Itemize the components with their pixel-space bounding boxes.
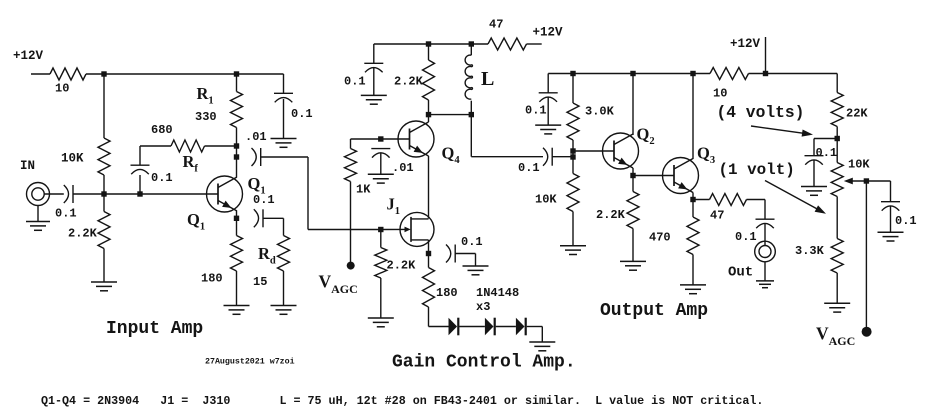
svg-text:0.1: 0.1: [461, 235, 483, 249]
resistor Rf 680: [171, 140, 205, 152]
wire wiper cap to ground: [890, 206, 892, 232]
label Q1 designator (upper): [248, 174, 266, 196]
wire R1 bottom to collector: [236, 128, 238, 178]
ground (470): [680, 285, 706, 294]
wire rail corner to 22K: [836, 74, 838, 93]
svg-text:0.1: 0.1: [525, 104, 547, 118]
ground (pot 0.1): [801, 187, 827, 196]
label 47 (output): [710, 209, 724, 223]
wire 2.2K to ground (Q2): [632, 229, 634, 262]
label 0.1 (pot top): [816, 146, 838, 160]
svg-text:2.2K: 2.2K: [596, 208, 626, 222]
svg-text:180: 180: [201, 272, 223, 286]
node +12V junction (output): [763, 71, 768, 76]
annotation (4 volts): [717, 103, 805, 122]
label Q4 designator: [442, 144, 461, 166]
svg-text:J1: J1: [387, 195, 401, 217]
svg-text:10K: 10K: [848, 158, 870, 172]
svg-text:Rf: Rf: [183, 152, 199, 174]
label 3.3K: [795, 244, 825, 258]
svg-text:2.2K: 2.2K: [68, 227, 98, 241]
svg-text:47: 47: [710, 209, 724, 223]
node rail-R1 junction: [234, 71, 239, 76]
wire 3.0K to base node: [572, 140, 574, 174]
resistor 180 (Q1 emitter): [231, 236, 243, 272]
ground (IN jack): [26, 222, 50, 231]
svg-text:3.0K: 3.0K: [585, 105, 615, 119]
power +12V label (input amp): [13, 49, 44, 63]
wire input node to 2.2K: [103, 194, 105, 212]
power +12V label (output): [730, 37, 761, 51]
capacitor 0.1 (output coupling): [756, 219, 775, 228]
ground (Out jack): [756, 281, 774, 288]
wire +12V drop (output): [765, 37, 767, 74]
label 2.2K (output): [596, 208, 626, 222]
wire Rd to ground: [283, 271, 285, 306]
svg-text:Q2: Q2: [637, 125, 655, 147]
transistor Q2: [603, 133, 639, 169]
label 3.0K: [585, 105, 615, 119]
label Rd designator: [258, 244, 276, 266]
svg-text:0.1: 0.1: [518, 161, 540, 175]
node rail Q2 junction: [630, 71, 635, 76]
svg-text:Q4: Q4: [442, 144, 461, 166]
resistor 1K: [345, 149, 357, 182]
transistor Q1: [207, 176, 243, 212]
title Gain Control Amp.: [392, 353, 576, 373]
svg-text:0.1: 0.1: [291, 107, 313, 121]
ground (output bypass): [535, 125, 561, 134]
node rail Q3 junction: [690, 71, 695, 76]
node coupling cap junction: [570, 154, 575, 159]
svg-text:L: L: [481, 68, 494, 90]
label 2.2K (input): [68, 227, 98, 241]
svg-text:Rd: Rd: [258, 244, 276, 266]
ground (input rail bypass): [271, 139, 297, 148]
wire collector node to L node: [429, 114, 472, 116]
resistor 2.2K (Q2 emitter): [627, 192, 639, 229]
wire Q1 emitter down: [236, 211, 238, 236]
capacitor 0.1 bypass (gain): [364, 63, 383, 72]
wire rail down to 0.1 bypass: [283, 74, 285, 93]
note bottom parts list: [41, 394, 763, 408]
label IN: [20, 159, 35, 173]
node J1 source junction: [426, 251, 431, 256]
svg-text:+12V: +12V: [13, 49, 44, 63]
ground (3.3K): [824, 303, 850, 312]
svg-text:R1: R1: [197, 84, 214, 106]
wire emitter cap to Rd: [263, 218, 284, 235]
diode D2 1N4148: [485, 318, 495, 336]
wire gate 2.2K to ground: [380, 278, 382, 318]
resistor 180 (J1 source): [423, 268, 435, 308]
wire 3.0K top: [572, 74, 574, 104]
node input-10K junction: [101, 191, 106, 196]
svg-text:10: 10: [713, 87, 727, 101]
annotation (1 volt): [719, 161, 795, 179]
ground (diodes): [529, 342, 555, 351]
ground (J1 gate 2.2K): [368, 318, 394, 327]
svg-text:0.1: 0.1: [895, 214, 917, 228]
wire Q2 emitter: [632, 168, 634, 192]
wire 2.2K to Q4 collector node: [428, 100, 430, 122]
label Out: [728, 265, 753, 281]
label Q3 designator: [697, 144, 715, 166]
node emitter junction Q1: [234, 216, 239, 221]
svg-text:47: 47: [489, 18, 503, 32]
svg-text:.01: .01: [392, 161, 414, 175]
annotation arrow (4 volts): [751, 126, 813, 137]
label 10K (input): [61, 152, 84, 166]
label 0.1 (feedback): [151, 171, 173, 185]
wire 2.2K to ground: [103, 249, 105, 283]
ground (input 2.2K): [91, 282, 117, 291]
wire .01 to ground (Q4): [380, 153, 382, 174]
wire IN jack to ground: [37, 206, 39, 222]
svg-text:Q1-Q4 = 2N3904 J1 = J310: Q1-Q4 = 2N3904 J1 = J310 L = 75 uH, 12t …: [41, 394, 763, 408]
label 10 (input amp): [55, 82, 69, 96]
wire wiper to Vagc: [865, 181, 867, 332]
wire 0.1 bypass to ground: [283, 99, 285, 139]
capacitor 0.1 (wiper bypass): [881, 202, 900, 211]
label J1 designator: [387, 195, 401, 217]
label Q1 designator (lower): [187, 210, 205, 232]
wire .01 cap to gain amp: [261, 157, 381, 230]
svg-text:Input Amp: Input Amp: [106, 319, 203, 339]
wire gate 2.2K down: [380, 230, 382, 248]
svg-text:.01: .01: [245, 130, 267, 144]
wire D1-D2: [459, 326, 485, 328]
label 1K: [356, 183, 371, 197]
wire 10K top: [103, 74, 105, 138]
label 0.1 (mid coupling): [518, 161, 540, 175]
label Vagc (output): [816, 324, 855, 349]
svg-text:VAGC: VAGC: [319, 272, 358, 297]
label 330: [195, 110, 217, 124]
svg-text:330: 330: [195, 110, 217, 124]
svg-text:0.1: 0.1: [344, 75, 366, 89]
wire 3.3K to ground: [836, 273, 838, 303]
label R1 designator: [197, 84, 214, 106]
label 0.1 (J1 source): [461, 235, 483, 249]
svg-text:22K: 22K: [846, 107, 868, 121]
svg-text:2.2K: 2.2K: [394, 75, 424, 89]
wire L top: [470, 44, 472, 55]
svg-text:(4 volts): (4 volts): [717, 103, 805, 122]
wire J1 source down: [428, 240, 430, 268]
ground (Rd): [271, 306, 297, 315]
wire wiper to right cap: [866, 181, 890, 202]
node Q3 emitter junction: [690, 197, 695, 202]
label 47 (gain rail): [489, 18, 503, 32]
wire 180 to ground: [236, 271, 238, 306]
label 0.1 (gain bypass): [344, 75, 366, 89]
label 680: [151, 123, 173, 137]
node rail 3.0K junction: [570, 71, 575, 76]
transistor J1 JFET: [400, 212, 434, 246]
wire source cap to ground: [455, 254, 475, 267]
node J1 gate junction: [378, 227, 383, 232]
resistor 10K (input bias upper): [98, 138, 110, 175]
ground (.01 Q4): [368, 174, 394, 183]
label 2.2K (Q4): [394, 75, 424, 89]
wire +12V rail input amp: [31, 73, 284, 75]
resistor Rd 15: [278, 236, 290, 272]
power +12V label (gain amp): [533, 26, 564, 40]
capacitor 0.1 (pot top bypass): [805, 156, 824, 165]
label 2.2K (J1 gate): [387, 259, 417, 273]
label 180 (gain amp): [436, 286, 458, 300]
wire L bottom: [470, 101, 472, 115]
ground (J1 source cap): [463, 266, 489, 275]
svg-text:Q1: Q1: [187, 210, 205, 232]
node Q4 base junction: [378, 136, 383, 141]
wire 47 to out cap: [747, 200, 766, 220]
svg-text:2.2K: 2.2K: [387, 259, 417, 273]
node rail-10K junction: [101, 71, 106, 76]
label L designator: [481, 68, 494, 90]
capacitor 0.1 bypass (input amp rail): [274, 93, 293, 102]
diode D1 1N4148: [449, 318, 459, 336]
ground (Q2 2.2K): [620, 261, 646, 270]
svg-text:0.1: 0.1: [253, 193, 275, 207]
wire Q3 emitter: [692, 193, 694, 218]
node wiper junction: [864, 178, 869, 183]
wire output rail: [548, 73, 710, 75]
svg-text:Out: Out: [728, 265, 753, 281]
capacitor 0.1 (J1 source bypass): [446, 245, 455, 263]
wire IN jack to cap: [44, 193, 64, 195]
wire input node: [73, 193, 218, 195]
label 10 (output): [713, 87, 727, 101]
wire D3 to ground: [527, 327, 543, 343]
svg-text:+12V: +12V: [533, 26, 564, 40]
label 0.1 (output bypass): [525, 104, 547, 118]
label 0.1 (wiper): [895, 214, 917, 228]
annotation arrow (1 volt): [765, 181, 826, 214]
label 1N4148: [476, 286, 519, 300]
label x3: [476, 300, 490, 314]
wire R1 top: [236, 74, 238, 92]
resistor R1 330: [231, 92, 243, 128]
node 22K-pot junction: [835, 136, 840, 141]
svg-text:IN: IN: [20, 159, 35, 173]
wire pot node to 0.1: [814, 139, 837, 156]
resistor 2.2K (Q4 collector): [423, 60, 435, 100]
wire 1K top corner: [350, 139, 352, 149]
svg-text:680: 680: [151, 123, 173, 137]
svg-text:Q3: Q3: [697, 144, 715, 166]
wire pot 0.1 to ground: [813, 160, 815, 186]
svg-text:1N4148: 1N4148: [476, 286, 519, 300]
resistor 10 (output rail): [710, 68, 749, 80]
wire Q3 emitter to 47: [693, 199, 710, 201]
wire 2.2K top (gain): [428, 44, 430, 60]
wire feedback cap up: [139, 175, 141, 194]
svg-text:10K: 10K: [61, 152, 84, 166]
svg-text:470: 470: [649, 231, 671, 245]
svg-text:3.3K: 3.3K: [795, 244, 825, 258]
capacitor .01 (Q4 base bypass): [371, 149, 390, 158]
resistor 47 (gain rail): [488, 38, 527, 50]
wire Out jack to ground: [764, 262, 766, 281]
pot wiper arrow: [844, 178, 867, 185]
resistor R 10 (input amp): [50, 68, 86, 80]
svg-text:10K: 10K: [535, 193, 557, 207]
resistor 2.2K (J1 gate): [375, 248, 387, 279]
wire out cap to jack: [764, 224, 766, 246]
resistor 3.0K: [567, 103, 579, 140]
resistor 2.2K (input emitter-ish bias): [98, 212, 110, 249]
resistor 470 (Q3 emitter): [687, 217, 699, 255]
wire Q2 emitter to Q3 base: [633, 175, 674, 177]
wire 1K to Vagc terminal: [350, 182, 352, 266]
node collector-Rf junction: [234, 143, 239, 148]
label 0.1 (Q1 emitter): [253, 193, 275, 207]
node Q4 collector junction: [426, 112, 431, 117]
node L bottom junction: [469, 112, 474, 117]
resistor 47 (output): [710, 194, 747, 206]
svg-text:0.1: 0.1: [735, 230, 757, 244]
wire L node to coupling cap: [471, 115, 543, 157]
label 180 (input amp): [201, 272, 223, 286]
transistor Q4: [398, 121, 434, 157]
wire 22K to pot node: [836, 127, 838, 163]
svg-text:10: 10: [55, 82, 69, 96]
wire cap to bias node: [552, 156, 573, 158]
wire Q4 base: [351, 138, 410, 140]
wire Q3 collector: [692, 74, 694, 160]
wire 47 to +12V end: [527, 43, 542, 45]
wire Q2 collector: [632, 74, 634, 136]
title Output Amp: [600, 301, 708, 321]
node gain rail 2.2K junction: [426, 41, 431, 46]
svg-text:VAGC: VAGC: [816, 324, 855, 349]
wire gain 0.1 to ground: [373, 68, 375, 95]
wire gain rail: [374, 43, 488, 45]
capacitor 0.1 coupling (to output amp): [543, 148, 552, 166]
ground (180 input): [224, 306, 250, 315]
svg-text:x3: x3: [476, 300, 490, 314]
wire rail to 0.1 (left output): [547, 74, 549, 93]
svg-text:27August2021 w7zoi: 27August2021 w7zoi: [205, 357, 295, 367]
capacitor .01 output coupling (input amp): [252, 148, 261, 166]
credit 27August2021 w7zoi: [205, 357, 295, 367]
wire 470 to ground: [692, 255, 694, 285]
title Input Amp: [106, 319, 203, 339]
svg-text:1K: 1K: [356, 183, 371, 197]
node collector-cap junction: [234, 154, 239, 159]
label 10K (pot): [848, 158, 870, 172]
wire Q4 emitter to J1 drain: [428, 156, 430, 219]
label 0.1 (input rail bypass): [291, 107, 313, 121]
transistor Q3: [663, 158, 699, 194]
label Q2 designator: [637, 125, 655, 147]
wire J1 gate: [381, 228, 406, 230]
svg-text:0.1: 0.1: [816, 146, 838, 160]
svg-text:180: 180: [436, 286, 458, 300]
label Rf designator: [183, 152, 199, 174]
label Vagc (gain amp): [319, 272, 358, 297]
terminal Vagc (output): [862, 327, 872, 337]
svg-text:+12V: +12V: [730, 37, 761, 51]
wire 10K bottom to input node: [103, 175, 105, 194]
svg-text:15: 15: [253, 275, 267, 289]
wire D2-D3: [496, 326, 516, 328]
wire 10 to +12V node: [749, 73, 838, 75]
node input-fb junction: [137, 191, 142, 196]
ground (gain bypass): [361, 95, 387, 104]
resistor 10K (output bias): [567, 174, 579, 212]
resistor 3.3K: [831, 239, 843, 274]
wire Q2 base: [573, 150, 614, 152]
svg-text:(1 volt): (1 volt): [719, 161, 795, 179]
terminal Vagc (gain amp): [347, 262, 355, 270]
node Q2 emitter junction: [630, 173, 635, 178]
svg-text:Output Amp: Output Amp: [600, 301, 708, 321]
label .01 (Q4): [392, 161, 414, 175]
label 22K: [846, 107, 868, 121]
node Q2 base junction: [570, 148, 575, 153]
connector IN jack: [27, 183, 50, 206]
svg-text:Gain Control Amp.: Gain Control Amp.: [392, 353, 576, 373]
label 470: [649, 231, 671, 245]
node gain rail L junction: [469, 41, 474, 46]
wire rail to 0.1 bypass (gain): [373, 44, 375, 63]
diode D3 1N4148: [516, 318, 526, 336]
label 10K (output bias): [535, 193, 557, 207]
connector Out jack: [755, 241, 776, 262]
ground (wiper cap): [878, 232, 904, 241]
wire pot to 3.3K: [836, 197, 838, 239]
capacitor 0.1 emitter bypass (Q1): [254, 209, 263, 227]
wire 180 to diodes: [429, 307, 449, 327]
resistor 22K: [831, 93, 843, 127]
svg-text:0.1: 0.1: [151, 171, 173, 185]
wire 10K to ground (output): [572, 212, 574, 246]
wire Rf to collector node: [205, 145, 237, 147]
inductor L: [465, 55, 472, 99]
label 15: [253, 275, 267, 289]
capacitor 0.1 input coupling: [64, 185, 73, 203]
capacitor 0.1 feedback: [131, 165, 150, 174]
label 0.1 (input coupling): [55, 207, 77, 221]
ground (output 10K): [560, 246, 586, 255]
label .01: [245, 130, 267, 144]
label 0.1 (out): [735, 230, 757, 244]
potentiometer 10K: [831, 163, 843, 197]
wire feedback cap to Rf: [140, 146, 171, 165]
svg-text:0.1: 0.1: [55, 207, 77, 221]
wire output 0.1 to ground: [547, 97, 549, 125]
capacitor 0.1 bypass (output left): [539, 93, 558, 102]
